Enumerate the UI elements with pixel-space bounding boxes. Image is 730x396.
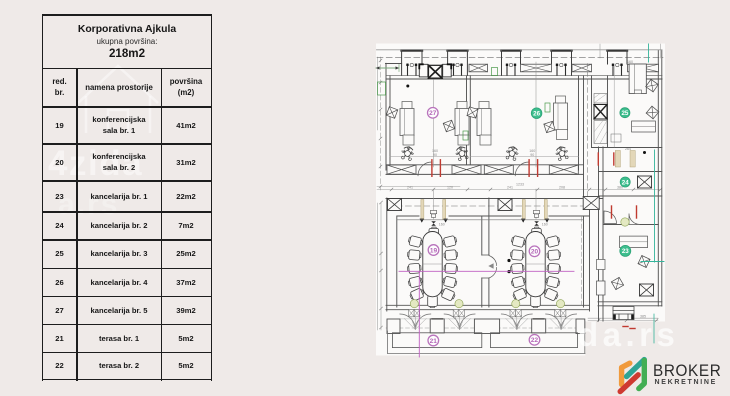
- svg-text:25: 25: [621, 110, 628, 117]
- svg-text:24: 24: [622, 179, 629, 186]
- svg-text:19: 19: [430, 247, 438, 254]
- svg-text:120: 120: [447, 185, 453, 189]
- svg-text:23: 23: [622, 248, 629, 255]
- svg-text:26: 26: [533, 111, 540, 118]
- svg-text:160: 160: [627, 60, 633, 64]
- svg-text:1233: 1233: [516, 182, 524, 186]
- svg-text:208: 208: [559, 185, 565, 189]
- svg-text:22: 22: [531, 337, 539, 344]
- svg-text:20: 20: [531, 249, 539, 256]
- svg-text:21: 21: [430, 338, 438, 345]
- svg-text:241: 241: [507, 185, 513, 189]
- svg-text:160: 160: [542, 223, 548, 227]
- svg-text:160: 160: [439, 223, 445, 227]
- svg-text:da.rs: da.rs: [578, 316, 679, 353]
- svg-text:241: 241: [407, 185, 413, 189]
- svg-text:27: 27: [429, 110, 437, 117]
